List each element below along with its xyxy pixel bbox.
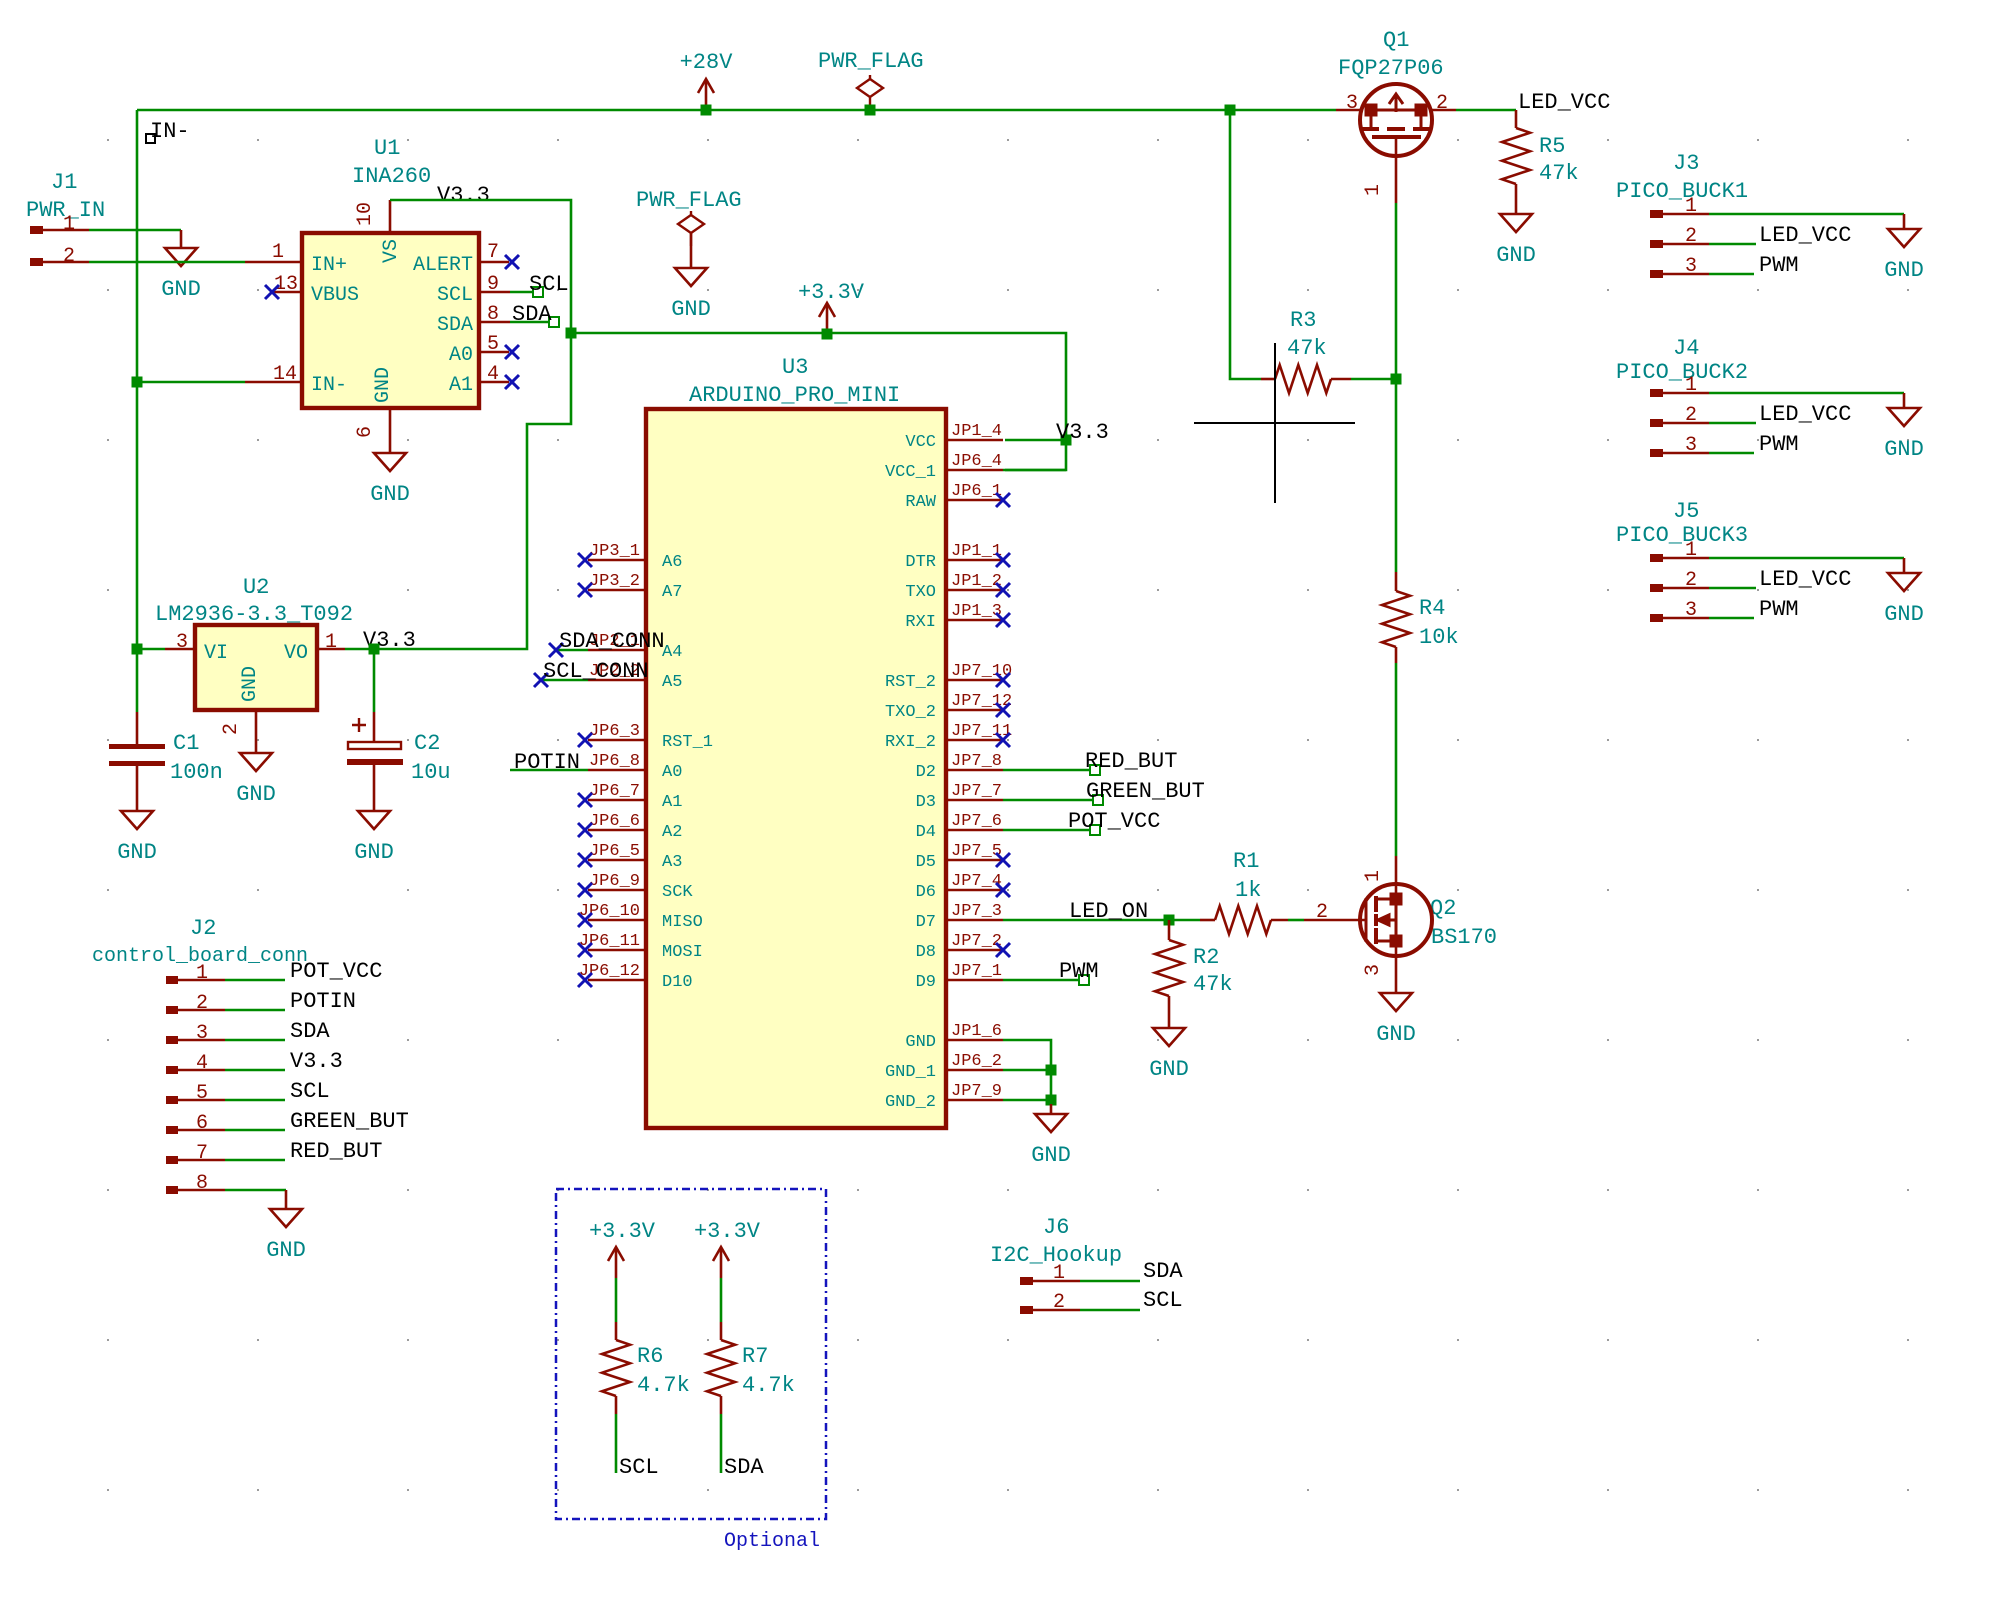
svg-text:JP7_4: JP7_4	[951, 872, 1002, 891]
svg-text:47k: 47k	[1193, 972, 1233, 997]
svg-text:SDA: SDA	[724, 1455, 764, 1480]
svg-text:1: 1	[196, 962, 208, 985]
svg-text:R1: R1	[1233, 849, 1259, 874]
wire J2.8 to GND	[225, 1189, 286, 1192]
svg-text:J6: J6	[1043, 1215, 1069, 1240]
wire VO to C2	[373, 649, 376, 712]
crosshair mark	[1194, 343, 1355, 503]
svg-text:VCC: VCC	[905, 433, 936, 452]
ground	[165, 230, 197, 266]
U3 pin JP6_4 VCC_1	[948, 469, 1003, 472]
svg-text:2: 2	[1053, 1291, 1065, 1314]
svg-text:R5: R5	[1539, 134, 1565, 159]
svg-text:JP3_1: JP3_1	[589, 542, 640, 561]
U1 pin 8 SDA	[481, 321, 510, 324]
svg-text:J5: J5	[1673, 499, 1699, 524]
wire D7 LED_ON	[1003, 919, 1200, 922]
svg-text:D7: D7	[916, 913, 936, 932]
svg-text:JP1_6: JP1_6	[951, 1022, 1002, 1041]
ground	[1500, 214, 1532, 232]
svg-text:POTIN: POTIN	[514, 750, 580, 775]
J2 pin 2	[166, 1006, 178, 1014]
svg-text:RXI_2: RXI_2	[885, 733, 936, 752]
J1 pin 2	[30, 258, 43, 266]
wire J6.1 SDA	[1080, 1280, 1140, 1283]
svg-text:PWM: PWM	[1059, 959, 1099, 984]
svg-text:47k: 47k	[1539, 161, 1579, 186]
svg-text:1: 1	[1053, 1262, 1065, 1285]
svg-text:SDA: SDA	[1143, 1259, 1183, 1284]
wire J3.2 LED_VCC	[1709, 243, 1756, 246]
no-connect X	[996, 613, 1010, 627]
svg-text:D6: D6	[916, 883, 936, 902]
svg-text:GND: GND	[372, 367, 395, 403]
svg-text:V3.3: V3.3	[437, 183, 490, 208]
no-connect X	[996, 583, 1010, 597]
J2 pin 1	[166, 976, 178, 984]
no-connect X	[549, 643, 563, 657]
junction	[822, 329, 833, 340]
no-connect X	[578, 823, 592, 837]
wire J2.1	[225, 979, 285, 982]
svg-text:VBUS: VBUS	[311, 284, 359, 307]
wire R4 to Q2	[1395, 663, 1398, 856]
wire A0 POTIN	[510, 769, 588, 772]
J2 pin 3	[166, 1036, 178, 1044]
svg-text:RXI: RXI	[905, 613, 936, 632]
svg-text:J3: J3	[1673, 151, 1699, 176]
svg-text:D4: D4	[916, 823, 936, 842]
resistor R2 47k	[1168, 920, 1171, 940]
svg-text:GND: GND	[354, 840, 394, 865]
svg-text:+28V: +28V	[680, 50, 734, 75]
svg-text:+3.3V: +3.3V	[798, 280, 865, 305]
svg-text:ALERT: ALERT	[413, 254, 473, 277]
U3 pin JP7_1 D9	[948, 979, 1003, 982]
wire J2.5	[225, 1099, 285, 1102]
J6 pin 2	[1020, 1306, 1033, 1314]
U3 pin JP2_2 A5	[588, 679, 644, 682]
svg-text:1: 1	[325, 631, 337, 654]
U2 pin 2 GND (bottom)	[255, 710, 258, 753]
resistor R1 1k	[1200, 919, 1215, 922]
U3 pin JP7_10 RST_2	[948, 679, 1003, 682]
svg-text:LED_VCC: LED_VCC	[1759, 567, 1851, 592]
svg-text:VS: VS	[380, 239, 403, 263]
svg-text:R6: R6	[637, 1344, 663, 1369]
Q2 internals	[1366, 894, 1401, 946]
label SDA	[549, 317, 559, 327]
ground	[121, 811, 153, 829]
wire GND_1	[1003, 1069, 1051, 1072]
svg-text:Optional: Optional	[724, 1530, 820, 1553]
svg-text:9: 9	[487, 273, 499, 296]
svg-text:POT_VCC: POT_VCC	[290, 959, 382, 984]
junction	[1061, 435, 1072, 446]
U1 pin 13 VBUS	[274, 291, 300, 294]
svg-text:JP6_9: JP6_9	[589, 872, 640, 891]
svg-text:4.7k: 4.7k	[637, 1373, 690, 1398]
U3 pin JP1_1 DTR	[948, 559, 1003, 562]
svg-text:R2: R2	[1193, 945, 1219, 970]
wire LED_VCC	[1456, 109, 1516, 112]
svg-text:2: 2	[1685, 404, 1697, 427]
no-connect X	[996, 703, 1010, 717]
wire +28V rail	[137, 109, 1336, 112]
svg-text:JP6_5: JP6_5	[589, 842, 640, 861]
junction	[1164, 915, 1175, 926]
svg-text:FQP27P06: FQP27P06	[1338, 56, 1444, 81]
svg-text:PWR_FLAG: PWR_FLAG	[818, 49, 924, 74]
svg-text:PICO_BUCK2: PICO_BUCK2	[1616, 360, 1748, 385]
svg-text:JP6_8: JP6_8	[589, 752, 640, 771]
ground	[1035, 1104, 1067, 1132]
wire VCC_1	[1003, 469, 1066, 472]
ground	[1888, 558, 1920, 591]
svg-text:1: 1	[1362, 870, 1385, 882]
wire D4 POT_VCC	[1003, 829, 1095, 832]
svg-text:SDA: SDA	[290, 1019, 330, 1044]
svg-text:8: 8	[487, 303, 499, 326]
svg-text:3: 3	[1685, 599, 1697, 622]
no-connect X	[578, 733, 592, 747]
wire R6 to SCL	[615, 1414, 618, 1473]
J1 pin 1	[30, 226, 43, 234]
U1 pin 6 GND (bottom)	[389, 408, 392, 453]
svg-text:10: 10	[354, 202, 377, 226]
Q1 pin 1 (drain, bottom)	[1395, 137, 1398, 203]
wire +3.3V to R6	[615, 1278, 618, 1322]
svg-text:D10: D10	[662, 973, 693, 992]
wire VCC stub	[1005, 439, 1066, 442]
svg-text:SCL: SCL	[437, 284, 473, 307]
svg-text:GND_1: GND_1	[885, 1063, 936, 1082]
U3 pin JP1_2 TXO	[948, 589, 1003, 592]
wire SDA stub	[510, 321, 553, 324]
ground	[374, 453, 406, 471]
U3 pin JP1_3 RXI	[948, 619, 1003, 622]
svg-text:A4: A4	[662, 643, 682, 662]
U2 pin 1 VO	[317, 648, 345, 651]
J3 pin 2	[1650, 240, 1663, 248]
svg-text:2: 2	[196, 992, 208, 1015]
junction	[132, 377, 143, 388]
Q2 pin 1 (drain, top)	[1395, 856, 1398, 899]
svg-text:RST_2: RST_2	[885, 673, 936, 692]
svg-text:IN+: IN+	[311, 254, 347, 277]
svg-text:MISO: MISO	[662, 913, 703, 932]
Q1 pin 3	[1336, 109, 1362, 112]
optional section box	[556, 1189, 826, 1519]
svg-text:3: 3	[196, 1022, 208, 1045]
U3 pin JP2_1 A4	[588, 649, 644, 652]
svg-text:A7: A7	[662, 583, 682, 602]
U3 pin JP7_2 D8	[948, 949, 1003, 952]
wire J2.6	[225, 1129, 285, 1132]
svg-text:JP6_6: JP6_6	[589, 812, 640, 831]
ground	[1380, 993, 1412, 1011]
U3 pin JP7_6 D4	[948, 829, 1003, 832]
svg-text:R7: R7	[742, 1344, 768, 1369]
svg-text:1: 1	[1685, 195, 1697, 218]
svg-text:JP6_7: JP6_7	[589, 782, 640, 801]
resistor R7 body	[707, 1340, 735, 1396]
J3 pin 1	[1650, 210, 1663, 218]
wire J2.2	[225, 1009, 285, 1012]
power symbol +3.3V	[713, 1247, 729, 1278]
svg-text:LM2936-3.3_T092: LM2936-3.3_T092	[155, 602, 353, 627]
svg-text:A1: A1	[662, 793, 682, 812]
wire IN- to U1.14	[137, 381, 245, 384]
wire GND bus	[1003, 1040, 1051, 1104]
svg-text:2: 2	[1685, 569, 1697, 592]
Q1 internals	[1361, 94, 1431, 137]
wire J4.2 LED_VCC	[1709, 422, 1756, 425]
svg-text:LED_VCC: LED_VCC	[1518, 90, 1610, 115]
J3 pin 3	[1650, 270, 1663, 278]
svg-text:LED_VCC: LED_VCC	[1759, 402, 1851, 427]
svg-text:TXO: TXO	[905, 583, 936, 602]
wire D9 PWM	[1003, 979, 1083, 982]
svg-text:VO: VO	[284, 642, 308, 665]
svg-text:U3: U3	[782, 355, 808, 380]
svg-text:10u: 10u	[411, 760, 451, 785]
wire J1.2 to U1 IN+	[89, 261, 245, 264]
U1 pin 9 SCL	[481, 291, 510, 294]
wire J4.3 PWM	[1709, 452, 1754, 455]
U3 pin JP7_11 RXI_2	[948, 739, 1003, 742]
U3 pin JP6_12 D10	[588, 979, 644, 982]
svg-text:GND: GND	[370, 482, 410, 507]
svg-text:10k: 10k	[1419, 625, 1459, 650]
wire J5.1 to GND	[1709, 557, 1904, 560]
svg-text:PWR_FLAG: PWR_FLAG	[636, 188, 742, 213]
svg-text:SCL: SCL	[529, 272, 569, 297]
svg-text:1k: 1k	[1235, 878, 1261, 903]
junction	[1046, 1065, 1057, 1076]
svg-text:PICO_BUCK3: PICO_BUCK3	[1616, 523, 1748, 548]
J2 pin 7	[166, 1156, 178, 1164]
U3 pin JP6_2 GND_1	[948, 1069, 1003, 1072]
U3 pin JP7_9 GND_2	[948, 1099, 1003, 1102]
svg-text:3: 3	[1362, 964, 1385, 976]
svg-text:+3.3V: +3.3V	[589, 1219, 656, 1244]
U3 pin JP6_1 RAW	[948, 499, 1003, 502]
svg-text:D2: D2	[916, 763, 936, 782]
svg-text:5: 5	[487, 333, 499, 356]
IC U1 INA260 body	[302, 233, 479, 408]
no-connect X	[996, 883, 1010, 897]
svg-text:BS170: BS170	[1431, 925, 1497, 950]
ground	[1888, 214, 1920, 247]
junction	[701, 105, 712, 116]
svg-text:4: 4	[487, 363, 499, 386]
svg-text:GND: GND	[1884, 602, 1924, 627]
svg-text:D3: D3	[916, 793, 936, 812]
junction	[865, 105, 876, 116]
node IN- label	[146, 134, 155, 143]
svg-text:C2: C2	[414, 731, 440, 756]
J5 pin 1	[1650, 554, 1663, 562]
svg-text:SCL: SCL	[1143, 1288, 1183, 1313]
U3 pin JP6_3 RST_1	[588, 739, 644, 742]
svg-text:2: 2	[1685, 225, 1697, 248]
resistor R5 body	[1502, 128, 1530, 184]
ground	[675, 233, 707, 286]
svg-text:1: 1	[1685, 539, 1697, 562]
no-connect X	[996, 853, 1010, 867]
ground	[270, 1190, 302, 1227]
svg-text:7: 7	[487, 241, 499, 264]
wire R3 to node	[1351, 378, 1396, 381]
svg-text:3: 3	[176, 631, 188, 654]
wire IN- vertical	[136, 110, 139, 712]
svg-text:R3: R3	[1290, 308, 1316, 333]
svg-text:POT_VCC: POT_VCC	[1068, 809, 1160, 834]
svg-text:D8: D8	[916, 943, 936, 962]
no-connect X	[996, 493, 1010, 507]
svg-text:JP6_3: JP6_3	[589, 722, 640, 741]
no-connect X	[578, 883, 592, 897]
U3 pin JP6_11 MOSI	[588, 949, 644, 952]
J4 pin 1	[1650, 389, 1663, 397]
resistor R6 body	[602, 1340, 630, 1396]
wire SCL stub	[510, 291, 537, 294]
no-connect X	[578, 973, 592, 987]
wire J3.1 to GND	[1709, 213, 1904, 216]
junction	[132, 644, 143, 655]
svg-text:SCL: SCL	[619, 1455, 659, 1480]
svg-text:A2: A2	[662, 823, 682, 842]
svg-text:GND: GND	[671, 297, 711, 322]
svg-text:GND_2: GND_2	[885, 1093, 936, 1112]
svg-text:Q1: Q1	[1383, 28, 1409, 53]
svg-text:GND: GND	[1149, 1057, 1189, 1082]
U1 pin 14 IN-	[245, 381, 300, 384]
J5 pin 2	[1650, 584, 1663, 592]
svg-text:GREEN_BUT: GREEN_BUT	[290, 1109, 409, 1134]
svg-text:PWM: PWM	[1759, 253, 1799, 278]
U3 pin JP1_4 VCC	[948, 439, 1003, 442]
svg-text:1: 1	[272, 241, 284, 264]
capacitor C1 100n	[136, 712, 139, 744]
Q1 pin 2	[1430, 109, 1456, 112]
power symbol +28V	[698, 79, 714, 110]
svg-text:7: 7	[196, 1142, 208, 1165]
svg-text:RED_BUT: RED_BUT	[1085, 749, 1177, 774]
svg-text:R4: R4	[1419, 596, 1445, 621]
no-connect X	[578, 853, 592, 867]
U3 pin JP3_2 A7	[588, 589, 644, 592]
U3 pin JP6_8 A0	[588, 769, 644, 772]
svg-text:ARDUINO_PRO_MINI: ARDUINO_PRO_MINI	[689, 383, 900, 408]
wire +3.3V to R7	[720, 1278, 723, 1322]
resistor R3 body	[1275, 365, 1331, 393]
J2 pin 8	[166, 1186, 178, 1194]
no-connect X	[578, 583, 592, 597]
U3 pin JP7_5 D5	[948, 859, 1003, 862]
junction	[369, 644, 380, 655]
svg-text:MOSI: MOSI	[662, 943, 703, 962]
U3 pin JP7_3 D7	[948, 919, 1003, 922]
svg-text:GND: GND	[905, 1033, 936, 1052]
svg-text:47k: 47k	[1287, 336, 1327, 361]
power flag PWR_FLAG	[678, 211, 704, 246]
svg-text:GND: GND	[1376, 1022, 1416, 1047]
resistor R1 body	[1215, 906, 1271, 934]
svg-text:JP1_3: JP1_3	[951, 602, 1002, 621]
svg-text:8: 8	[196, 1172, 208, 1195]
svg-text:2: 2	[220, 723, 243, 735]
svg-text:POTIN: POTIN	[290, 989, 356, 1014]
svg-text:5: 5	[196, 1082, 208, 1105]
svg-text:D5: D5	[916, 853, 936, 872]
svg-text:RAW: RAW	[905, 493, 936, 512]
svg-text:JP1_1: JP1_1	[951, 542, 1002, 561]
Q2 pin 2 (gate)	[1304, 919, 1366, 922]
wire J6.2 SCL	[1080, 1309, 1140, 1312]
svg-text:14: 14	[273, 363, 297, 386]
no-connect X	[996, 943, 1010, 957]
U3 pin JP6_9 SCK	[588, 889, 644, 892]
wire A4 SDA_CONN	[558, 649, 588, 652]
svg-text:100n: 100n	[170, 760, 223, 785]
no-connect X	[534, 673, 548, 687]
no-connect X	[578, 793, 592, 807]
wire J5.2 LED_VCC	[1709, 587, 1756, 590]
svg-text:2: 2	[1316, 901, 1328, 924]
U3 pin JP6_7 A1	[588, 799, 644, 802]
wire +3.3V rail	[571, 333, 1066, 470]
svg-text:3: 3	[1685, 255, 1697, 278]
svg-text:JP7_2: JP7_2	[951, 932, 1002, 951]
wire J2.3	[225, 1039, 285, 1042]
resistor R2 body	[1155, 940, 1183, 996]
U3 pin JP7_12 TXO_2	[948, 709, 1003, 712]
svg-text:V3.3: V3.3	[290, 1049, 343, 1074]
svg-text:A1: A1	[449, 374, 473, 397]
svg-text:LED_VCC: LED_VCC	[1759, 223, 1851, 248]
svg-text:GND: GND	[1884, 258, 1924, 283]
wire U1 VS to U2 VO (V3.3)	[345, 200, 571, 649]
svg-text:GND: GND	[161, 277, 201, 302]
svg-text:C1: C1	[173, 731, 199, 756]
svg-text:VI: VI	[204, 642, 228, 665]
no-connect X	[265, 285, 279, 299]
wire J4.1 to GND	[1709, 392, 1904, 395]
wire J2.7	[225, 1159, 285, 1162]
no-connect X	[996, 553, 1010, 567]
svg-text:VCC_1: VCC_1	[885, 463, 936, 482]
wire A5 SCL_CONN	[543, 679, 588, 682]
svg-text:GND: GND	[1031, 1143, 1071, 1168]
U3 pin JP7_7 D3	[948, 799, 1003, 802]
svg-text:PWM: PWM	[1759, 432, 1799, 457]
svg-text:1: 1	[1362, 184, 1385, 196]
wire R1 to Q2 gate	[1288, 919, 1304, 922]
U3 pin JP3_1 A6	[588, 559, 644, 562]
svg-text:SDA_CONN: SDA_CONN	[559, 629, 665, 654]
svg-text:V3.3: V3.3	[1056, 420, 1109, 445]
regulator U2 LM2936-3.3_TO92 body	[195, 625, 317, 710]
svg-text:JP7_6: JP7_6	[951, 812, 1002, 831]
svg-text:JP7_5: JP7_5	[951, 842, 1002, 861]
svg-text:JP6_4: JP6_4	[951, 452, 1002, 471]
J5 pin 3	[1650, 614, 1663, 622]
svg-text:DTR: DTR	[905, 553, 936, 572]
ground	[1888, 393, 1920, 426]
wire D3 GREEN_BUT	[1003, 799, 1098, 802]
